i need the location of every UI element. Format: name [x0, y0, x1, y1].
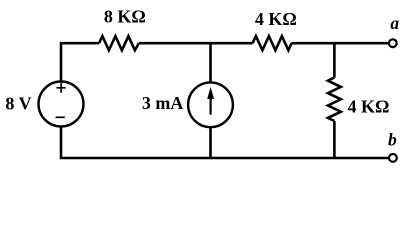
wire: right branch bottom lead	[333, 121, 336, 158]
svg-text:8 KΩ: 8 KΩ	[104, 6, 146, 26]
svg-text:b: b	[388, 130, 397, 150]
voltage source plus sign	[56, 83, 65, 93]
resistor R1 zigzag (8 KΩ)	[99, 36, 139, 50]
wire: top-left segment (left vertical + top run to R1)	[61, 43, 99, 81]
svg-text:8 V: 8 V	[5, 94, 31, 114]
terminal a circle	[389, 39, 397, 47]
current source arrow shaft	[210, 97, 212, 115]
resistor R2 zigzag (4 KΩ horizontal)	[253, 36, 292, 50]
svg-text:4 KΩ: 4 KΩ	[348, 97, 390, 117]
voltage source minus sign	[56, 116, 65, 118]
current source arrow head	[207, 87, 214, 99]
svg-text:4 KΩ: 4 KΩ	[255, 9, 297, 29]
wire: top middle segment R1 to R2	[139, 42, 253, 45]
wire: middle branch vertical (junction to current source)	[209, 43, 212, 82]
voltage source V1 (8 V) circle	[39, 82, 84, 127]
svg-text:a: a	[390, 13, 399, 33]
resistor R3 zigzag (4 KΩ vertical)	[328, 78, 341, 122]
wire: top right segment R2 to terminal a	[292, 42, 389, 45]
wire: current source bottom lead	[209, 127, 212, 158]
svg-text:3 mA: 3 mA	[142, 93, 184, 113]
wire: right branch top lead	[333, 43, 336, 77]
terminal b circle	[389, 154, 397, 162]
current source I1 (3 mA) circle	[188, 82, 233, 127]
wire: voltage source bottom lead + bottom rail	[61, 127, 388, 159]
